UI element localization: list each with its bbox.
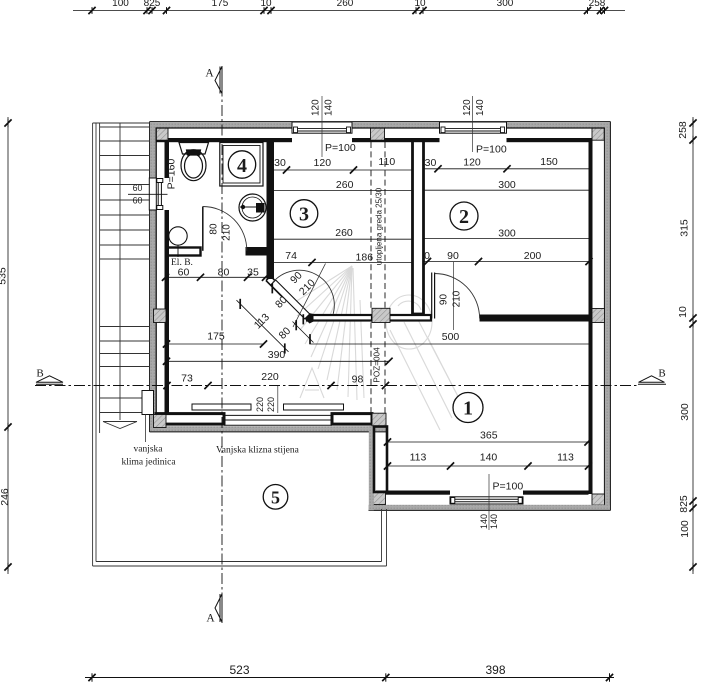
svg-text:30: 30 — [425, 157, 437, 169]
svg-text:3: 3 — [299, 204, 309, 226]
room circle 3 — [290, 200, 318, 228]
svg-text:P=100: P=100 — [325, 142, 356, 154]
svg-text:210: 210 — [452, 290, 463, 307]
svg-text:5: 5 — [271, 488, 280, 508]
room circle 4 — [228, 151, 255, 178]
toilet — [179, 143, 209, 181]
svg-text:300: 300 — [497, 0, 514, 9]
svg-text:140: 140 — [480, 452, 498, 464]
terrace bottom outer — [93, 565, 387, 567]
svg-text:60: 60 — [178, 266, 190, 278]
left wall inner face thick line — [165, 140, 170, 178]
svg-text:74: 74 — [285, 250, 297, 262]
right wall inner face thick line — [589, 138, 593, 494]
section marker A bottom — [215, 594, 222, 622]
room3 dim line 260 a — [274, 190, 413, 192]
svg-text:120: 120 — [311, 99, 322, 116]
interior dim ticks — [283, 166, 290, 173]
wall hall/rooms horizontal left — [307, 315, 372, 321]
left wall outer line — [149, 122, 151, 432]
svg-text:220: 220 — [261, 371, 279, 383]
column hall wall right (beam end) — [372, 413, 386, 427]
shower square room4 — [220, 143, 263, 187]
door entry leaf band — [271, 280, 310, 319]
column right at floor wall junction — [592, 309, 605, 323]
hall bottom wall outer line — [150, 431, 387, 433]
svg-text:vanjska: vanjska — [133, 445, 163, 455]
room 1 left wall gray band — [369, 426, 374, 510]
svg-text:260: 260 — [337, 0, 354, 9]
svg-text:825: 825 — [678, 495, 690, 513]
svg-text:2: 2 — [459, 206, 469, 228]
svg-text:73: 73 — [181, 373, 193, 385]
door bathroom leaf — [202, 207, 204, 251]
svg-text:120: 120 — [462, 99, 473, 116]
svg-text:390: 390 — [268, 349, 286, 361]
hall bottom wall gray band — [150, 426, 387, 431]
svg-text:246: 246 — [0, 488, 11, 506]
svg-text:B: B — [36, 368, 43, 380]
svg-text:365: 365 — [480, 430, 498, 442]
section marker B left — [36, 376, 63, 383]
sliding panel left — [192, 404, 251, 410]
svg-text:258: 258 — [589, 0, 606, 9]
section marker B right — [639, 376, 665, 383]
bottom wall gray band — [369, 505, 611, 510]
svg-text:140: 140 — [479, 514, 489, 529]
svg-text:260: 260 — [336, 179, 354, 191]
stairs direction arrow — [103, 421, 137, 423]
wall divider rooms 3/2 — [413, 140, 424, 314]
column top-right — [592, 128, 604, 140]
svg-text:315: 315 — [679, 219, 691, 237]
svg-text:4: 4 — [237, 155, 247, 177]
column top-left — [156, 128, 168, 140]
svg-text:150: 150 — [540, 156, 558, 168]
hall bottom wall left segment — [156, 414, 224, 425]
hall dim line 175 — [166, 343, 264, 345]
column left at hall wall junction — [154, 309, 167, 323]
wall bathroom bottom right segment — [246, 247, 275, 256]
window room3 top P=100 — [292, 96, 356, 157]
stairs 60/60 dim — [128, 193, 168, 195]
svg-text:535: 535 — [0, 267, 9, 285]
sliding opening track lines — [224, 414, 332, 416]
room circle 2 — [450, 202, 478, 230]
wall bathroom right — [267, 140, 275, 279]
svg-text:175: 175 — [212, 0, 229, 9]
left wall inner-of-gray line — [155, 128, 157, 178]
door entry swing arc — [273, 270, 335, 314]
column beam mid — [372, 308, 390, 322]
svg-text:300: 300 — [679, 403, 691, 421]
top wall outer line — [150, 121, 611, 123]
bottom dimension line — [85, 677, 614, 679]
svg-text:80: 80 — [218, 266, 230, 278]
bathroom dim line 60/80/35 — [165, 276, 267, 278]
svg-text:10: 10 — [260, 0, 272, 9]
hall dim line 500 — [311, 343, 589, 345]
svg-text:200: 200 — [524, 250, 542, 262]
section line B — [35, 385, 637, 387]
svg-text:258: 258 — [677, 121, 689, 139]
svg-text:120: 120 — [314, 157, 332, 169]
svg-text:98: 98 — [352, 374, 364, 386]
svg-text:113: 113 — [410, 452, 427, 464]
svg-text:140: 140 — [324, 99, 335, 116]
column bottom-left of room 1 — [373, 492, 386, 505]
window room2 top P=100 — [440, 96, 507, 156]
door bathroom arc — [203, 207, 247, 251]
terrace bottom inner — [96, 561, 382, 563]
svg-text:P=160: P=160 — [166, 159, 178, 190]
top wall gray band — [150, 122, 292, 127]
svg-text:140: 140 — [489, 514, 499, 529]
terrace right inner — [381, 509, 383, 562]
svg-text:60: 60 — [133, 183, 143, 193]
svg-text:90: 90 — [447, 250, 459, 262]
svg-text:120: 120 — [463, 156, 481, 168]
stairs center line — [119, 123, 121, 420]
right dimension line — [692, 117, 694, 574]
top dimension line — [73, 10, 625, 12]
stairs top line — [93, 122, 150, 124]
svg-text:B: B — [658, 368, 665, 380]
room2 dim line 30/120/150 — [424, 168, 589, 170]
column right at bottom corner — [592, 494, 605, 505]
stairs left double line — [92, 123, 94, 566]
svg-text:100: 100 — [112, 0, 129, 9]
room1 dim line 365 — [387, 441, 589, 443]
svg-text:140: 140 — [475, 99, 486, 116]
left wall gray band — [150, 122, 156, 178]
interior dim labels — [178, 156, 574, 464]
sliding wall 220 labels — [277, 386, 279, 413]
svg-text:30: 30 — [274, 157, 286, 169]
svg-text:35: 35 — [247, 267, 259, 279]
svg-text:300: 300 — [498, 179, 516, 191]
beam line upper left — [370, 142, 372, 308]
stair steps upper flight — [100, 126, 150, 128]
svg-text:113: 113 — [557, 452, 574, 464]
svg-text:210: 210 — [222, 224, 233, 241]
room3 dim line 30/120/110 — [274, 169, 413, 171]
room1 dim line 113/140/113 — [387, 465, 589, 467]
svg-text:825: 825 — [144, 0, 161, 9]
left dimension line — [7, 117, 9, 574]
section line A — [221, 66, 223, 623]
room circle 1 — [453, 393, 483, 423]
watermark logo — [295, 266, 470, 430]
room2 dim line 10/90/200 — [424, 261, 592, 263]
svg-text:1: 1 — [463, 398, 473, 420]
right wall gray band — [605, 122, 610, 510]
top wall inner-of-gray line — [150, 127, 292, 129]
column top of beam — [371, 128, 385, 140]
svg-text:P=100: P=100 — [476, 144, 507, 156]
top wall inner face thick line — [156, 138, 292, 142]
bottom wall outer line — [369, 509, 611, 511]
window room1 bottom P=100 — [450, 474, 523, 530]
svg-text:398: 398 — [485, 663, 505, 677]
svg-text:500: 500 — [442, 331, 460, 343]
room2 dim line 300 a — [424, 189, 589, 191]
svg-text:A: A — [206, 613, 215, 625]
room 1 left wall lines — [374, 427, 387, 493]
hall dim line 390 — [166, 360, 390, 362]
beam line lower — [370, 323, 372, 414]
svg-text:80: 80 — [209, 223, 220, 235]
bottom wall (room 1) inner face thick line — [376, 491, 450, 495]
section marker A top — [215, 67, 222, 94]
sliding panel right — [284, 404, 344, 410]
klima unit — [142, 391, 154, 415]
svg-text:Vanjska klizna stijena: Vanjska klizna stijena — [216, 446, 300, 456]
svg-text:utopljena greda 25/30: utopljena greda 25/30 — [374, 187, 383, 265]
door room2 leaf — [431, 273, 433, 319]
wall diagonal entry seg2 — [303, 313, 314, 324]
right wall inner-of-gray line — [603, 128, 605, 505]
svg-text:100: 100 — [679, 520, 691, 538]
svg-text:300: 300 — [498, 227, 516, 239]
svg-text:POZ=004: POZ=004 — [373, 347, 382, 383]
room circle 5 — [263, 485, 288, 510]
svg-text:klima jedinica: klima jedinica — [121, 458, 176, 468]
svg-text:10: 10 — [414, 0, 426, 9]
room3 dim line 74/186 — [274, 261, 413, 263]
svg-text:220: 220 — [266, 397, 276, 412]
svg-text:60: 60 — [133, 195, 143, 205]
window bathroom left P=160 — [149, 159, 177, 210]
sink — [239, 194, 266, 221]
room3 dim line 260 b — [274, 238, 413, 240]
wall bathroom bottom left segment — [166, 248, 201, 256]
right wall outer line — [609, 122, 611, 511]
terrace right outer — [386, 509, 388, 566]
svg-text:0: 0 — [424, 250, 430, 262]
room2 dim line 300 b — [424, 237, 589, 239]
diagonal dim line 80 lower — [293, 322, 314, 343]
door room2 arc — [435, 274, 480, 319]
diagonal dim line 113 — [237, 300, 289, 352]
svg-text:260: 260 — [335, 227, 353, 239]
svg-text:523: 523 — [229, 663, 249, 677]
svg-text:220: 220 — [255, 397, 265, 412]
svg-text:186: 186 — [356, 252, 374, 264]
door entry swing line — [293, 264, 326, 328]
boiler circle — [169, 227, 187, 245]
column left at bottom wall corner — [154, 415, 167, 428]
svg-text:10: 10 — [677, 306, 689, 318]
wall diagonal entry seg1 — [266, 276, 287, 297]
svg-text:90: 90 — [439, 294, 450, 306]
hall bottom wall mid segment — [332, 414, 372, 425]
wall hall/rooms horizontal right — [480, 315, 589, 322]
svg-text:110: 110 — [378, 156, 395, 168]
wall hall/rooms horizontal mid — [387, 315, 431, 321]
svg-text:A: A — [205, 68, 214, 80]
stair steps lower flight — [100, 326, 150, 328]
svg-text:P=100: P=100 — [493, 481, 524, 493]
